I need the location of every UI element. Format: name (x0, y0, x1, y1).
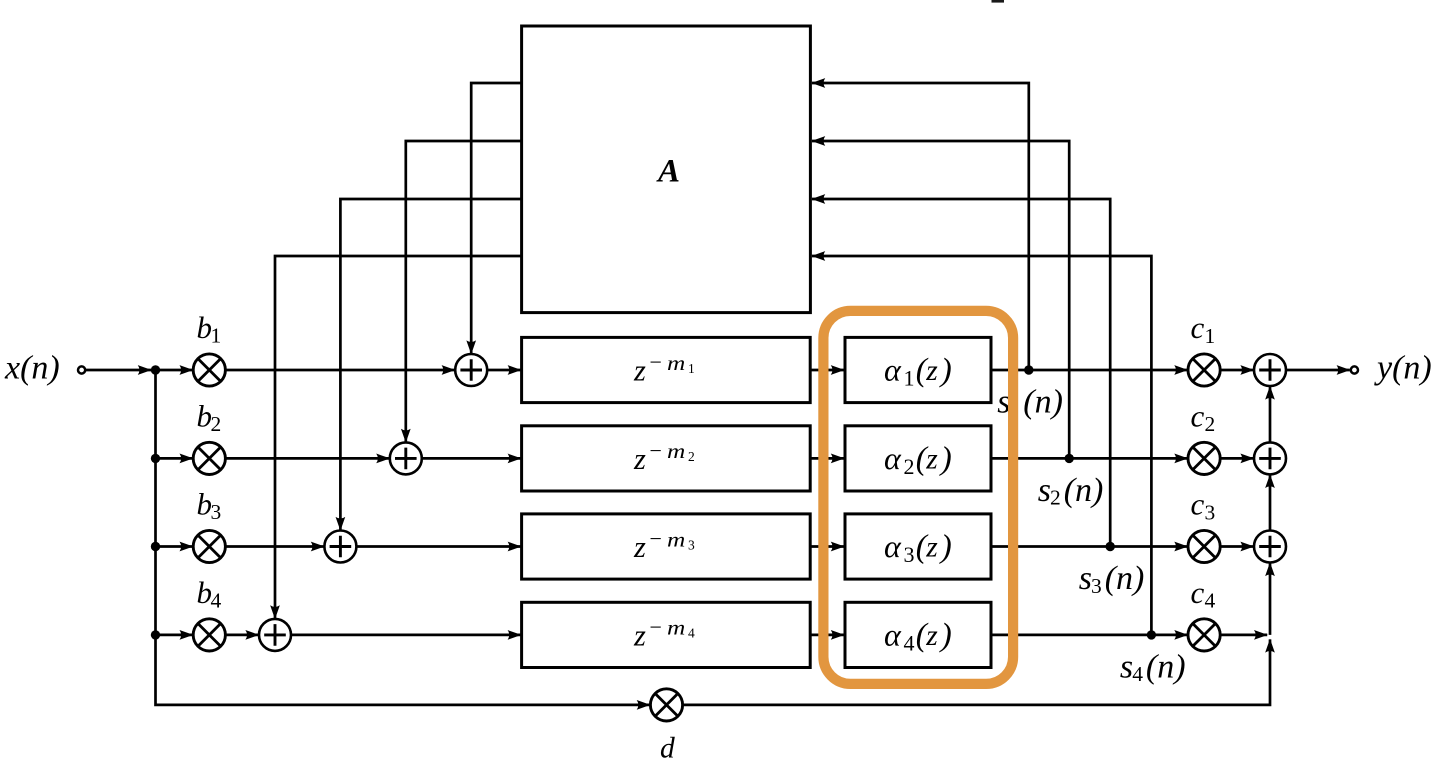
input adder 4 (259, 619, 291, 651)
svg-text:1: 1 (904, 366, 915, 391)
input bus wire down to multiplier d (156, 370, 650, 705)
svg-text:s: s (1038, 472, 1051, 509)
input terminal x(n) (78, 366, 85, 373)
delay block z^-m2 (522, 426, 811, 491)
svg-text:(n): (n) (1023, 384, 1063, 421)
svg-text:α: α (884, 616, 902, 652)
feedback wire node s4 up to A input 4 (812, 256, 1151, 635)
svg-text:α: α (884, 440, 902, 476)
wire filter a3 (node s3) to multiplier c3 (991, 545, 1188, 548)
wire filter a2 (node s2) to multiplier c2 (991, 457, 1188, 460)
branch node row 1 (151, 365, 160, 374)
svg-text:3: 3 (688, 537, 695, 552)
svg-text:s: s (1120, 648, 1133, 685)
svg-text:z: z (925, 620, 938, 652)
svg-text:c: c (1191, 398, 1205, 433)
svg-text:−: − (650, 438, 662, 463)
svg-text:(n): (n) (1105, 560, 1145, 597)
node s2 tap (1065, 454, 1074, 463)
feedback matrix block A (522, 26, 811, 313)
wire output adder 1 to y(n) terminal (1286, 369, 1350, 372)
svg-text:): ) (939, 529, 952, 565)
wire adder 3 to delay z^-m3 (356, 545, 520, 548)
multiplier c1 (1188, 354, 1220, 386)
svg-text:−: − (650, 350, 662, 375)
multiplier c3 (1188, 530, 1220, 562)
wire filter a4 (node s4) to multiplier c4 (991, 634, 1188, 637)
svg-text:1: 1 (211, 324, 222, 348)
svg-text:m: m (667, 353, 685, 375)
branch node row 2 (151, 454, 160, 463)
wire branch to multiplier b3 (156, 545, 193, 548)
svg-text:m: m (667, 529, 685, 551)
wire adder 2 to delay z^-m2 (422, 457, 521, 460)
feedback wire node s3 up to A input 3 (812, 199, 1110, 547)
feedback wire node s2 up to A input 2 (812, 141, 1069, 458)
svg-text:c: c (1191, 310, 1205, 345)
wire b2 to adder 2 (225, 457, 389, 460)
multiplier b1 (193, 354, 225, 386)
output adder 3 (1254, 531, 1286, 563)
svg-text:z: z (633, 442, 646, 476)
wire adder 4 to delay z^-m4 (291, 634, 521, 637)
wire adder 1 to delay z^-m1 (487, 369, 521, 372)
output terminal y(n) (1351, 366, 1358, 373)
wire input to branch node (86, 369, 151, 372)
svg-text:): ) (939, 441, 952, 477)
node s1 tap (1024, 365, 1033, 374)
svg-text:s: s (1079, 560, 1092, 597)
svg-text:): ) (939, 353, 952, 389)
branch node row 4 (151, 630, 160, 639)
svg-text:): ) (939, 617, 952, 653)
svg-text:4: 4 (1132, 662, 1143, 686)
wire branch to multiplier b4 (156, 634, 193, 637)
svg-text:3: 3 (904, 542, 915, 567)
svg-text:4: 4 (1205, 589, 1216, 613)
svg-text:3: 3 (1205, 500, 1216, 524)
input adder 1 (455, 354, 487, 386)
svg-text:2: 2 (1050, 486, 1061, 510)
wire delay z^-m1 to filter a1 (810, 369, 844, 372)
svg-text:z: z (633, 354, 646, 388)
filter block alpha3(z) (845, 514, 991, 579)
node s3 tap (1106, 542, 1115, 551)
svg-text:z: z (633, 530, 646, 564)
svg-text:z: z (633, 619, 646, 653)
delay block z^-m1 (522, 337, 811, 402)
svg-text:2: 2 (1205, 412, 1216, 436)
svg-text:4: 4 (211, 588, 222, 612)
delay block z^-m4 (522, 602, 811, 667)
svg-text:m: m (667, 441, 685, 463)
wire c4 to output riser junction (1220, 634, 1267, 637)
svg-text:3: 3 (211, 500, 222, 524)
svg-text:c: c (1191, 575, 1205, 610)
output adder 1 (1254, 354, 1286, 386)
wire delay z^-m3 to filter a3 (810, 545, 844, 548)
svg-text:α: α (884, 528, 902, 564)
output adder 2 (1254, 442, 1286, 474)
svg-text:z: z (925, 532, 938, 564)
svg-text:1: 1 (688, 361, 695, 376)
wire d to output riser (683, 639, 1270, 705)
multiplier c2 (1188, 442, 1220, 474)
svg-text:3: 3 (1091, 574, 1102, 598)
svg-text:2: 2 (211, 412, 222, 436)
svg-text:4: 4 (688, 626, 695, 641)
branch node row 3 (151, 542, 160, 551)
delay block z^-m3 (522, 514, 811, 579)
feedback wire A output 1 down to adder 1 (471, 83, 522, 354)
wire b1 to adder 1 (225, 369, 454, 372)
svg-text:1: 1 (1205, 324, 1216, 348)
svg-text:2: 2 (688, 449, 695, 464)
svg-text:−: − (650, 614, 662, 639)
wire b3 to adder 3 (225, 545, 324, 548)
feedback wire A output 2 down to adder 2 (406, 141, 522, 442)
wire c2 to output adder 2 (1220, 457, 1253, 460)
cropped text fragment at top edge (992, 0, 1005, 3)
wire delay z^-m4 to filter a4 (810, 634, 844, 637)
multiplier b3 (193, 530, 225, 562)
multiplier d (650, 689, 682, 721)
svg-text:y(n): y(n) (1374, 349, 1432, 386)
wire c1 to output adder 1 (1220, 369, 1253, 372)
svg-text:α: α (884, 352, 902, 388)
multiplier c4 (1188, 619, 1220, 651)
wire delay z^-m2 to filter a2 (810, 457, 844, 460)
input adder 3 (324, 531, 356, 563)
svg-text:2: 2 (904, 454, 915, 479)
feedback wire A output 4 down to adder 4 (275, 256, 522, 619)
filter block alpha2(z) (845, 426, 991, 491)
svg-text:(n): (n) (1146, 648, 1186, 685)
feedback wire node s1 up to A input 1 (812, 83, 1029, 370)
wire branch to multiplier b2 (156, 457, 193, 460)
svg-text:4: 4 (904, 631, 915, 656)
wire c3 to output adder 3 (1220, 545, 1253, 548)
riser wire adder 2 to adder 1 (1269, 386, 1272, 442)
multiplier b4 (193, 619, 225, 651)
riser wire adder 3 to adder 2 (1269, 475, 1272, 531)
svg-text:c: c (1191, 487, 1205, 522)
svg-text:z: z (925, 355, 938, 387)
orange highlight box around filters (823, 311, 1013, 684)
feedback wire A output 3 down to adder 3 (340, 199, 522, 530)
svg-text:x(n): x(n) (4, 349, 60, 386)
node s4 tap (1147, 630, 1156, 639)
svg-text:−: − (650, 526, 662, 551)
svg-text:m: m (667, 618, 685, 640)
wire b4 to adder 4 (225, 634, 258, 637)
riser wire row4 junction to output adder 3 (1269, 563, 1272, 635)
multiplier b2 (193, 442, 225, 474)
svg-text:(n): (n) (1064, 472, 1104, 509)
svg-text:d: d (660, 733, 675, 765)
svg-text:z: z (925, 444, 938, 476)
svg-text:A: A (656, 153, 680, 189)
filter block alpha4(z) (845, 602, 991, 667)
input adder 2 (390, 442, 422, 474)
wire branch to multiplier b1 (156, 369, 193, 372)
wire filter a1 (node s1) to multiplier c1 (991, 369, 1188, 372)
filter block alpha1(z) (845, 337, 991, 402)
